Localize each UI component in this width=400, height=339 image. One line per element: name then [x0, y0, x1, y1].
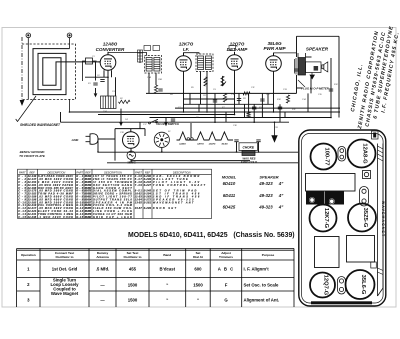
svg-text:I.F.: I.F.: [183, 47, 189, 52]
svg-text:Antenna: Antenna: [96, 255, 109, 259]
svg-text:A B C: A B C: [218, 267, 235, 272]
svg-text:100-77: 100-77: [323, 147, 329, 165]
svg-text:SPEAKER: SPEAKER: [259, 174, 278, 179]
svg-text:15-57: 15-57: [135, 206, 143, 210]
svg-text:DESCRIPTION: DESCRIPTION: [173, 170, 191, 174]
svg-text:SPEAKER: SPEAKER: [306, 47, 329, 52]
svg-text:600: 600: [194, 267, 202, 272]
svg-text:S1: S1: [168, 131, 170, 133]
svg-text:—: —: [100, 298, 105, 303]
svg-text:MODELS 6D410, 6D411, 6D425 (: MODELS 6D410, 6D411, 6D425 (Chassis No. …: [128, 232, 295, 239]
svg-text:Trimmers: Trimmers: [219, 255, 233, 259]
svg-text:12K7G: 12K7G: [179, 42, 194, 47]
svg-text:REF: REF: [145, 170, 151, 174]
svg-text:CONVERTER: CONVERTER: [96, 47, 125, 52]
svg-text:12A8G: 12A8G: [179, 143, 186, 145]
svg-text:MODEL: MODEL: [222, 174, 237, 179]
svg-text:12Q7-G: 12Q7-G: [322, 275, 328, 296]
svg-text:WAVEMAGNET: WAVEMAGNET: [381, 201, 385, 237]
svg-text:35L6G: 35L6G: [221, 143, 228, 145]
svg-text:“: “: [166, 298, 168, 303]
svg-text:6D410: 6D410: [223, 181, 236, 186]
svg-text:CHOKE: CHOKE: [243, 146, 255, 150]
svg-text:R-15: R-15: [76, 215, 84, 219]
svg-text:49-323: 49-323: [258, 181, 273, 186]
svg-text:63-692: 63-692: [85, 215, 92, 219]
svg-text:REF: REF: [30, 170, 36, 174]
svg-text:.1 MFD 200V COND: .1 MFD 200V COND: [38, 215, 73, 219]
svg-text:PART: PART: [135, 170, 142, 174]
svg-text:35L6-G: 35L6-G: [360, 275, 366, 295]
svg-text:R1: R1: [88, 83, 91, 85]
svg-text:1st Det. Grid: 1st Det. Grid: [52, 267, 78, 272]
svg-text:C11: C11: [251, 87, 255, 89]
svg-text:Oscillator to: Oscillator to: [123, 255, 141, 259]
svg-text:DESCRIPTION: DESCRIPTION: [48, 170, 66, 174]
svg-text:1500: 1500: [128, 283, 138, 288]
svg-text:Wave Magnet: Wave Magnet: [51, 291, 79, 296]
svg-text:“: “: [197, 298, 199, 303]
svg-text:Set Osc. to Scale: Set Osc. to Scale: [244, 283, 279, 288]
svg-text:DESCRIPTION: DESCRIPTION: [104, 170, 122, 174]
svg-text:PLUG IN O-P METER: PLUG IN O-P METER: [301, 86, 329, 90]
svg-text:7-49: 7-49: [135, 183, 143, 187]
svg-text:SHIELDED WAVEMAGNET: SHIELDED WAVEMAGNET: [20, 123, 61, 127]
svg-text:13-55: 13-55: [135, 200, 143, 204]
svg-text:C5B: C5B: [158, 79, 163, 81]
svg-text:GRID CAP + LEAD: GRID CAP + LEAD: [93, 215, 132, 219]
svg-text:49-323: 49-323: [258, 193, 273, 198]
svg-text:6D425: 6D425: [223, 204, 236, 209]
svg-text:KNOB SET: KNOB SET: [153, 206, 177, 210]
svg-text:1500: 1500: [128, 298, 138, 303]
svg-text:12K7G: 12K7G: [197, 143, 204, 145]
svg-text:12K7-G: 12K7-G: [323, 208, 329, 229]
svg-text:REF: REF: [85, 170, 91, 174]
svg-text:DET-AMP: DET-AMP: [227, 47, 249, 52]
svg-text:Band: Band: [163, 253, 171, 257]
svg-text:C-15: C-15: [18, 215, 26, 219]
svg-text:22-238: 22-238: [27, 215, 37, 219]
svg-text:C5A: C5A: [147, 76, 152, 79]
svg-text:B’dcast: B’dcast: [160, 267, 176, 272]
svg-text:Purpose: Purpose: [262, 253, 275, 257]
svg-text:.5 Mfd.: .5 Mfd.: [96, 267, 110, 272]
svg-text:4”: 4”: [278, 204, 284, 209]
svg-text:LINE: LINE: [72, 138, 80, 142]
svg-text:4”: 4”: [278, 193, 284, 198]
svg-text:12A8-G: 12A8-G: [361, 143, 367, 164]
svg-text:Operation: Operation: [21, 253, 36, 257]
svg-text:S-281: S-281: [144, 200, 152, 204]
svg-text:TUNE CONTROL SHAFT: TUNE CONTROL SHAFT: [153, 183, 206, 187]
svg-text:PWR AMP: PWR AMP: [263, 46, 286, 51]
svg-text:I. F. Alignm’t: I. F. Alignm’t: [244, 267, 270, 272]
svg-text:PART: PART: [19, 170, 26, 174]
svg-text:F: F: [225, 283, 228, 288]
svg-text:—: —: [100, 283, 105, 288]
svg-text:“: “: [166, 283, 168, 288]
svg-text:TO FRONT PLATE: TO FRONT PLATE: [19, 154, 46, 158]
svg-text:35Z5-G: 35Z5-G: [362, 208, 368, 228]
svg-text:Oscillator to: Oscillator to: [55, 255, 73, 259]
svg-text:Dial At: Dial At: [193, 255, 203, 259]
svg-text:12A8G: 12A8G: [103, 42, 118, 47]
svg-text:12Q7G: 12Q7G: [209, 143, 216, 145]
svg-text:49-323: 49-323: [258, 204, 273, 209]
svg-text:455: 455: [129, 267, 137, 272]
svg-text:PART: PART: [76, 170, 83, 174]
svg-text:C1: C1: [92, 56, 95, 58]
svg-text:4”: 4”: [278, 181, 284, 186]
svg-text:6D411: 6D411: [223, 193, 236, 198]
svg-text:S-299: S-299: [144, 206, 152, 210]
svg-text:1500: 1500: [193, 283, 203, 288]
svg-text:R11: R11: [292, 109, 296, 111]
svg-text:Alignment of Ant.: Alignment of Ant.: [244, 298, 280, 303]
svg-text:S-227: S-227: [144, 183, 152, 187]
